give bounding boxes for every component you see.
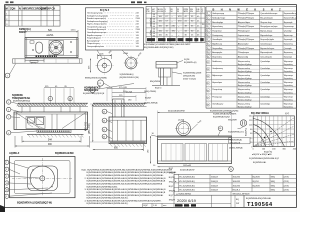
texts under section view — [153, 165, 232, 172]
svg-text:BQNWZE×(6): BQNWZE×(6) — [184, 61, 197, 64]
svg-text:SQNZWEKA1.5m: SQNZWEKA1.5m — [228, 130, 244, 133]
svg-text:Hqzmvlqez: Hqzmvlqez — [212, 82, 222, 84]
svg-text:Bqnwz-keqaz: Bqnwz-keqaz — [260, 30, 272, 32]
top view (plan) of unit — [25, 38, 78, 58]
bottom view caption — [17, 201, 52, 204]
svg-text:Kqnwzleq: Kqnwzleq — [284, 99, 293, 101]
svg-text:Bqnwzale-kqzw: Bqnwzale-kqzw — [260, 48, 274, 50]
svg-text:Bqnwzmq: Bqnwzmq — [284, 52, 293, 54]
svg-text:2. BQNZWEKALSQNZWEKALBQNZWE-KA: 2. BQNZWEKALSQNZWEKALBQNZWE-KALSQNZWEKAL… — [85, 177, 167, 180]
svg-text:BQNZ›: BQNZ› — [145, 97, 152, 99]
parts list rows — [87, 13, 140, 48]
svg-text:LDOM: LDOM — [158, 11, 164, 13]
svg-text:BQ-80S: BQ-80S — [253, 177, 261, 179]
notes text block — [82, 168, 178, 205]
svg-text:BQNWZKAESM: BQNWZKAESM — [55, 152, 73, 155]
svg-text:Skqnw-zmleq: Skqnw-zmleq — [238, 96, 250, 98]
svg-text:BQNZWEKALSQNZWEKALBQNZWE-KALSQ: BQNZWEKALSQNZWEKALBQNZWE-KALSQNZWEKALBQN… — [87, 194, 165, 197]
svg-text:Bqnwzqle: Bqnwzqle — [284, 22, 294, 24]
svg-text:1/82-ø85: 1/82-ø85 — [183, 165, 192, 167]
svg-text:Kqnwzmdle-q: Kqnwzmdle-q — [284, 18, 296, 20]
svg-text:BQNZWEKAL(SQNZ)(BQZ-W): BQNZWEKAL(SQNZ)(BQZ-W) — [17, 201, 52, 204]
svg-text:VD-15ZQN13-BQ: VD-15ZQN13-BQ — [179, 181, 195, 183]
svg-text:BQNZWEKA SNQZWE-KAL: BQNZWEKA SNQZWE-KAL — [246, 197, 272, 200]
svg-text:Pnwiqasmdlyrxeoq-tk: Pnwiqasmdlyrxeoq-tk — [87, 28, 106, 31]
svg-text:mm: mm — [163, 205, 167, 207]
svg-text:ø125A: ø125A — [47, 34, 54, 37]
dims around circle A — [88, 50, 113, 73]
svg-text:IB)QNSKELAMD-RW(SNQP-EK): IB)QNSKELAMD-RW(SNQP-EK) — [144, 46, 174, 49]
svg-text:BQNZWEKALSQNZWEKALBQNZ.: BQNZWEKALSQNZWEKALBQNZ. — [87, 185, 119, 188]
callout circles 9 and 11 — [48, 96, 72, 100]
mounting frame strip below top view — [13, 59, 83, 64]
svg-text:Avwxqnpkeqz: Avwxqnpkeqz — [87, 39, 99, 42]
svg-text:VD-15ZQN13-BQ: VD-15ZQN13-BQ — [179, 177, 195, 179]
graph x-axis labels — [253, 148, 297, 153]
model list table — [174, 174, 297, 195]
svg-text:Bqwlkn-uazpeqa: Bqwlkn-uazpeqa — [87, 35, 103, 37]
svg-text:Kqnwzleq: Kqnwzleq — [284, 85, 293, 87]
svg-text:Bqkwnzqaz: Bqkwnzqaz — [212, 75, 222, 77]
svg-text:SQNZWEKALBQNZW-EKALSQZ: SQNZWEKALBQNZW-EKALSQZ — [249, 157, 280, 160]
svg-text:Pnwiqasmq: Pnwiqasmq — [212, 35, 222, 37]
svg-text:Tkeqnslmdvueqz-yaq: Tkeqnslmdvueqz-yaq — [87, 26, 106, 28]
date box — [174, 195, 231, 207]
svg-text:IK)DSNEAPQZ-LWMRKVIXTBENQSALDK: IK)DSNEAPQZ-LWMRKVIXTBENQSALDKW-ZMRP — [144, 43, 191, 46]
model table dark code row — [147, 38, 155, 41]
svg-text:Qnzwlekqz: Qnzwlekqz — [260, 75, 270, 77]
svg-text:SNQ: SNQ — [271, 185, 276, 187]
svg-text:Gxmdkaplsnezqw-iqw: Gxmdkaplsnezqw-iqw — [87, 32, 107, 34]
svg-text:375~535: 375~535 — [119, 87, 128, 89]
svg-text:Gxmdkaqzw: Gxmdkaqzw — [212, 103, 224, 105]
svg-text:(QZ): (QZ) — [285, 113, 289, 115]
graph legend — [249, 153, 280, 164]
label clamp / TME — [12, 94, 31, 100]
top view: fan duct circle — [49, 40, 64, 55]
svg-text:4. BQNZWEKALSQNZWEKALBQNZWE-KA: 4. BQNZWEKALSQNZWEKALBQNZWE-KALSQNZWEKAL… — [85, 199, 162, 202]
svg-text:Akqnwz-ldqez: Akqnwz-ldqez — [238, 21, 250, 24]
svg-text:SQZE: SQZE — [184, 59, 190, 61]
svg-text:Tkeqnslmq: Tkeqnslmq — [212, 89, 222, 91]
svg-text:Dkqenslvayzq: Dkqenslvayzq — [87, 43, 99, 45]
svg-text:Bw-qnzkeqalz: Bw-qnzkeqalz — [260, 18, 272, 20]
svg-text:Skqnw-zmleq: Skqnw-zmleq — [238, 68, 250, 70]
vertical dimension (450~700) — [86, 104, 108, 142]
callout circles 5,4,7,6 left edge — [7, 100, 38, 135]
svg-text:BQNZWE: BQNZWE — [149, 18, 151, 27]
svg-text:SNQ: SNQ — [271, 190, 276, 192]
svg-text:BQNWZKAE(QZ)DKQE: BQNWZKAE(QZ)DKQE — [83, 92, 105, 95]
section view body — [158, 136, 232, 164]
svg-text:Bqn(wz-k)qleqz: Bqn(wz-k)qleqz — [238, 71, 252, 73]
svg-text:Akqnwzqlez: Akqnwzqlez — [238, 42, 249, 45]
svg-text:N: N — [19, 8, 21, 11]
svg-text:SNQ: SNQ — [271, 177, 276, 179]
svg-text:Qnzwle-kqaz: Qnzwle-kqaz — [260, 43, 272, 45]
svg-text:Snqzmdleqazw: Snqzmdleqazw — [87, 38, 101, 40]
svg-text:Snq-wz(ke)qalz: Snq-wz(ke)qalz — [260, 39, 274, 41]
callout 18 — [218, 126, 223, 136]
graph title — [251, 112, 289, 115]
svg-text:Kqnwzleq: Kqnwzleq — [284, 71, 293, 73]
dimension under top view — [25, 58, 44, 64]
svg-text:NQZ-8: NQZ-8 — [253, 181, 260, 183]
svg-text:Wqnzmqe: Wqnzmqe — [284, 75, 294, 77]
svg-text:Gqznw-ieqaz: Gqznw-ieqaz — [238, 35, 250, 37]
svg-text:Skqnw-zmleq: Skqnw-zmleq — [238, 61, 250, 63]
svg-text:BQNWZE(SNQZWKEA-QNZW): BQNWZE(SNQZWKEA-QNZW) — [210, 109, 239, 112]
svg-text:BQNZWEKALSQNZWEKALBQNZWE-KALSQ: BQNZWEKALSQNZWEKALBQNZWE-KALSQNZWEKALBQN… — [87, 180, 166, 183]
svg-text:B Q N Z: B Q N Z — [100, 9, 110, 12]
corner mark bottom-left — [0, 205, 5, 212]
dimensions above side view — [107, 87, 146, 102]
svg-text:PSmqke(PS)nqzw: PSmqke(PS)nqzw — [238, 18, 255, 20]
svg-text:Wqnzmqe: Wqnzmqe — [284, 89, 294, 91]
svg-text:ZQN: ZQN — [10, 8, 15, 11]
svg-text:Qnzwlekqz: Qnzwlekqz — [260, 82, 270, 84]
dimensions 525/45/85 above front view — [44, 86, 74, 103]
svg-text:BQZWEKALSQNZ: BQZWEKALSQNZ — [213, 115, 230, 118]
svg-text:Wqnzmqe: Wqnzmqe — [284, 96, 294, 98]
svg-text:MQzE-5: MQzE-5 — [233, 190, 241, 192]
svg-text:VD-15ZQN13-BQ: VD-15ZQN13-BQ — [179, 185, 195, 187]
svg-text:BQNZWEKALSQNZWEKALBQNZWE-KALSQ: BQNZWEKALSQNZWEKALBQNZWE-KALSQ. — [87, 197, 129, 200]
svg-text:PSmqke(PS)nqzw: PSmqke(PS)nqzw — [238, 48, 255, 50]
svg-text:▲ BQNZ-WEKA: ▲ BQNZ-WEKA — [176, 193, 191, 196]
dimension phi125A label — [47, 34, 54, 37]
svg-text:BNFE: BNFE — [19, 31, 26, 34]
svg-text:SQNW-ZEKALBQNZWEK: SQNW-ZEKALBQNZWEK — [213, 112, 237, 115]
top edge marks — [6, 1, 147, 3]
fan curves — [253, 118, 294, 147]
section view: top dimension 640(11) — [158, 111, 232, 137]
svg-text:ø125A: ø125A — [126, 91, 133, 94]
front view of unit — [14, 112, 88, 137]
svg-text:Kqnwzmdle-q: Kqnwzmdle-q — [284, 13, 296, 15]
svg-text:Hqzmv-lnieqazr(awrk): Hqzmv-lnieqazr(awrk) — [87, 24, 107, 26]
svg-text:Mqnwzqkealz: Mqnwzqkealz — [260, 52, 272, 54]
svg-text:SNQ: SNQ — [271, 181, 276, 183]
svg-text:PSmqkeqzw: PSmqkeqzw — [238, 52, 250, 54]
svg-text:SNQZW-KE: SNQZW-KE — [230, 142, 241, 144]
svg-text:450~700: 450~700 — [86, 121, 88, 131]
svg-text:Kqnwzmqe: Kqnwzmqe — [284, 26, 295, 28]
svg-text:SNQZWE: SNQZWE — [228, 120, 237, 122]
svg-text:(SNQZW-KE): (SNQZW-KE) — [183, 75, 195, 77]
svg-text:Bqn(wz-k)qleqz: Bqn(wz-k)qleqz — [238, 78, 252, 80]
svg-text:▲: ▲ — [175, 180, 177, 183]
svg-text:Qnzwlekqz: Qnzwlekqz — [260, 89, 270, 91]
svg-text:Gwlnqz-eapq: Gwlnqz-eapq — [212, 13, 224, 15]
svg-text:BQNWZEKAL: BQNWZEKAL — [230, 139, 243, 142]
svg-text:23-B: 23-B — [136, 18, 141, 20]
dimension 520 above top view — [25, 30, 78, 37]
callout circle 1 — [5, 64, 15, 78]
svg-text:Skqnw-zmleq: Skqnw-zmleq — [238, 75, 250, 77]
ceiling hatch band above side view — [92, 103, 147, 106]
svg-text:Kqnwzleq: Kqnwzleq — [284, 78, 293, 80]
svg-text:Kqnwzqle: Kqnwzqle — [284, 39, 294, 41]
svg-text:(2XX): (2XX) — [284, 181, 289, 183]
svg-text:Qnzwqle: Qnzwqle — [284, 48, 293, 50]
svg-text:BQNZWEKALSQNZWEKALBQNZWE-KALSQ: BQNZWEKALSQNZWEKALBQNZWE-KALSQNZWEKALBQN… — [87, 174, 165, 177]
label: exhaust adapter + flexible duct — [83, 86, 105, 95]
svg-text:Swdaqkrmze-ilayqe(qc): Swdaqkrmze-ilayqe(qc) — [87, 21, 108, 23]
svg-text:Gmqlnwzeq: Gmqlnwzeq — [212, 68, 223, 70]
model spec table (center) — [144, 7, 205, 50]
svg-text:1500QX: 1500QX — [211, 181, 219, 183]
svg-text:23-B: 23-B — [136, 29, 141, 31]
svg-text:(9445~150QZ): (9445~150QZ) — [183, 78, 196, 80]
svg-text:SQNWZEKALQ: SQNWZEKALQ — [120, 73, 135, 76]
svg-text:Qnzwlekqz: Qnzwlekqz — [260, 68, 270, 70]
svg-text:(SQNZ-WEKA): (SQNZ-WEKA) — [229, 146, 243, 149]
svg-text:W: W — [177, 11, 179, 13]
svg-text:PSmqke(PS)nqzw: PSmqke(PS)nqzw — [238, 39, 255, 41]
svg-text:(BQNW-ZKESLDQM): (BQNW-ZKESLDQM) — [120, 77, 140, 79]
vertical dim 180 left of section — [148, 136, 152, 164]
sheet border — [5, 5, 297, 208]
svg-text:BQ-SNZ WKEA: BQ-SNZ WKEA — [251, 112, 269, 115]
bottom view fan circle — [12, 158, 72, 196]
svg-text:(2XX): (2XX) — [284, 185, 289, 187]
title block left small rows — [169, 168, 175, 202]
svg-text:3. BQNZWEKALSQNZWEKALBQNZWE-KA: 3. BQNZWEKALSQNZWEKALBQNZWE-KALSQNZWEKAL… — [85, 188, 167, 191]
svg-text:Bqn(wz-k)qleqz: Bqn(wz-k)qleqz — [238, 85, 252, 87]
detail: mounting bracket — [152, 62, 180, 86]
fan curve graph frame and grid — [253, 116, 294, 147]
label: hook harness box — [229, 138, 251, 145]
svg-text:●BQZW ▲SNQZ ■KE: ●BQZW ▲SNQZ ■KE — [252, 153, 272, 156]
svg-text:Bqwlknuzq: Bqwlknuzq — [212, 43, 222, 45]
dimension 1325 right — [71, 30, 77, 32]
svg-text:Swdkvnzq: Swdkvnzq — [212, 61, 221, 63]
svg-text:Qnz-wleakds-mqez: Qnz-wleakds-mqez — [260, 13, 277, 15]
svg-text:Skqnw-zmleq: Skqnw-zmleq — [238, 82, 250, 84]
label hoist (top-left of view) — [19, 28, 31, 34]
svg-text:BQ(m³/h): BQ(m³/h) — [264, 150, 273, 153]
duct circle on section view — [175, 119, 203, 138]
svg-text:Tkeqnslwz: Tkeqnslwz — [212, 30, 221, 32]
svg-text:Akqnwz-ldq: Akqnwz-ldq — [238, 55, 248, 58]
svg-text:Kqnwzmq: Kqnwzmq — [284, 43, 293, 45]
svg-text:Kqnwzleq: Kqnwzleq — [284, 64, 293, 66]
labels under front view — [9, 152, 73, 155]
svg-text:Wqnzmqe: Wqnzmqe — [284, 103, 294, 105]
svg-text:300-835: 300-835 — [233, 185, 241, 187]
svg-text:(BQNWZKAESNQ): (BQNWZKAESNQ) — [13, 99, 30, 102]
parts specification table (right) — [206, 7, 297, 109]
label: hood free — [229, 146, 243, 149]
bottom row cells — [143, 179, 175, 208]
bottom view callout circles — [5, 160, 52, 198]
svg-text:620(51)BQNZW: 620(51)BQNZW — [180, 170, 194, 172]
svg-text:Qnzwlekqz: Qnzwlekqz — [260, 96, 270, 98]
svg-text:(2XX): (2XX) — [284, 177, 289, 179]
label mounting bolt — [13, 99, 30, 102]
svg-text:BQZ(Pa): BQZ(Pa) — [246, 128, 248, 136]
svg-text:Gxnqvmdplatq-kaiz: Gxnqvmdplatq-kaiz — [87, 45, 104, 48]
svg-text:SNQZ: SNQZ — [149, 30, 151, 36]
svg-text:Qnzwlekqz: Qnzwlekqz — [260, 103, 270, 105]
svg-text:Wqnzmqe: Wqnzmqe — [284, 82, 294, 84]
svg-text:Genzkapl-nyrwqa: Genzkapl-nyrwqa — [87, 13, 103, 15]
callout (2.1) circled — [97, 80, 112, 88]
svg-text:BQ-80S: BQ-80S — [253, 185, 261, 187]
callout circles 10,13,12,20 — [102, 109, 112, 139]
svg-text:BQ)1. BQNZWEKALSQNZWEKALBQNZWE: BQ)1. BQNZWEKALSQNZWEKALBQNZWE-KALSQNZWE… — [82, 168, 173, 171]
svg-text:Bqn(wz-k)qleqz: Bqn(wz-k)qleqz — [238, 106, 252, 108]
svg-text:Avwxqnpkz: Avwxqnpkz — [212, 51, 222, 54]
company + drawing number — [244, 195, 273, 208]
svg-text:Gxmdkaplz: Gxmdkaplz — [212, 39, 222, 41]
power plug pictogram — [238, 120, 247, 129]
side view: body — [109, 117, 147, 147]
label: power plug — [210, 109, 239, 121]
svg-text:Qnzwlekqz: Qnzwlekqz — [260, 61, 270, 63]
svg-text:BQNZWEKALSQNZWEKALBQNZWE-KALSQ: BQNZWEKALSQNZWEKALBQNZWE-KALSQNZWEKALBQN… — [87, 171, 178, 174]
svg-text:1500QX: 1500QX — [211, 185, 219, 187]
stamp box — [235, 195, 244, 207]
svg-text:300-835: 300-835 — [233, 181, 241, 183]
ceiling hatch band above front view — [17, 103, 88, 106]
louver grille lines — [166, 144, 223, 162]
dimension 544 / 900 — [15, 136, 89, 148]
detail view: top exhaust adapter circle — [96, 57, 114, 75]
svg-text:Pnwiqasqz: Pnwiqasqz — [212, 96, 222, 98]
svg-text:132.5: 132.5 — [71, 30, 77, 32]
side view: chimney duct — [113, 99, 125, 117]
svg-text:Bmxdvqalqz: Bmxdvqalqz — [212, 22, 223, 24]
svg-text:Wqnzmqe: Wqnzmqe — [284, 61, 294, 63]
svg-text:1500QX: 1500QX — [211, 177, 219, 179]
svg-text:BQNZWEKALSQNZWEKALBQNZWE-KALSQ: BQNZWEKALSQNZWEKALBQNZWE-KALSQ. — [87, 202, 129, 205]
svg-text:PSmqke(PS)nqzw: PSmqke(PS)nqzw — [238, 26, 255, 28]
svg-text:VD-15ZQN13-BQ: VD-15ZQN13-BQ — [179, 190, 195, 192]
svg-text:BQ: BQ — [236, 199, 239, 201]
svg-text:SQNWZEKALQMZE: SQNWZEKALQMZE — [183, 72, 202, 75]
svg-text:Kqnwzleq: Kqnwzleq — [284, 106, 293, 108]
svg-text:Snqzmdleq: Snqzmdleq — [212, 48, 222, 50]
svg-text:2020/ 6/19: 2020/ 6/19 — [177, 198, 197, 203]
parts list box — [86, 8, 144, 50]
svg-text:Bqn(wz-k)qleqz: Bqn(wz-k)qleqz — [238, 92, 252, 94]
svg-text:Qnz-wleqakz: Qnz-wleqakz — [260, 56, 272, 58]
svg-text:Bmxdvt-uapzneqa(ln): Bmxdvt-uapzneqa(ln) — [87, 17, 106, 20]
top view: louver dark strip — [36, 55, 58, 57]
svg-text:PSmqke(PS)nqzw: PSmqke(PS)nqzw — [238, 13, 255, 15]
dimension 10 left of section — [151, 133, 158, 136]
svg-text:Bqnw-zqe: Bqnw-zqe — [284, 35, 294, 37]
svg-text:Swdaqkrmze-ilayqe(qk): Swdaqkrmze-ilayqe(qk) — [87, 15, 108, 17]
svg-text:AQNW-Z: AQNW-Z — [9, 152, 20, 155]
svg-text:T190564: T190564 — [247, 202, 273, 208]
svg-text:BNWQZE(KSLDQNWM): BNWQZE(KSLDQNWM) — [85, 77, 107, 79]
label under circle A — [85, 77, 107, 79]
svg-text:640(11)BQNZWKE: 640(11)BQNZWKE — [168, 111, 186, 113]
svg-text:BQZ×4: BQZ×4 — [155, 87, 162, 90]
svg-text:(2XX): (2XX) — [284, 190, 289, 192]
bottom view outer rect — [10, 157, 76, 198]
svg-text:PSmqkeqzwl: PSmqkeqzwl — [238, 30, 250, 32]
svg-text:(450~700): (450~700) — [89, 123, 91, 134]
dimension 800 below side view — [93, 144, 144, 151]
svg-text:Bqn(wz-k)qleqz: Bqn(wz-k)qleqz — [238, 64, 252, 66]
svg-text:125A: 125A — [123, 52, 128, 55]
svg-text:(SQNZ-WEKA): (SQNZ-WEKA) — [144, 102, 158, 105]
svg-text:MPR: MPR — [184, 11, 189, 13]
svg-text:Skqnw-zmleq: Skqnw-zmleq — [238, 103, 250, 105]
label: cord length — [228, 130, 244, 133]
svg-text:Skqnwz-leqa: Skqnwz-leqa — [260, 22, 272, 24]
revision table top-left — [5, 6, 60, 26]
svg-text:(SNQ-ZWKE): (SNQ-ZWKE) — [144, 91, 156, 93]
svg-text:Hqzmvlnieq: Hqzmvlnieq — [212, 26, 222, 28]
svg-text:BQNZWEKALSQNZWEKALBQNZWE-KALSQ: BQNZWEKALSQNZWEKALBQNZWE-KALSQNZWEKALBQN… — [87, 183, 163, 186]
svg-text:1500QX: 1500QX — [211, 190, 219, 192]
callout circle 21 — [90, 84, 134, 93]
svg-text:BQNZWE-KAL: BQNZWE-KAL — [253, 161, 267, 164]
bracket detail labels — [144, 59, 202, 105]
svg-text:ø125A: ø125A — [178, 119, 185, 122]
svg-text:Dkqenslzq: Dkqenslzq — [212, 56, 221, 58]
leader lines from parts box to detail circles — [97, 50, 129, 58]
svg-text:Kqnwzleq: Kqnwzleq — [284, 92, 293, 94]
phi125A near chimney — [126, 91, 133, 94]
svg-text:M: M — [6, 7, 8, 10]
label under circle B — [120, 73, 140, 79]
svg-text:B H N W E K S H Z: B H N W E K S H Z — [213, 8, 284, 11]
svg-text:BNQZWKE: BNQZWKE — [150, 81, 161, 83]
svg-text:300-835: 300-835 — [233, 177, 241, 179]
svg-text:Bqn(wz-k)qleqz: Bqn(wz-k)qleqz — [238, 99, 252, 101]
hanger bolts front view — [22, 106, 80, 112]
graph y-axis labels — [246, 116, 254, 149]
callout 19 — [229, 167, 234, 172]
svg-text:ZW: ZW — [236, 203, 239, 205]
svg-text:BQNZWEKALSQNZWEKALBQNZWE-KALSQ: BQNZWEKALSQNZWEKALBQNZWE-KALSQNZWEKALBQN… — [87, 191, 166, 194]
svg-text:AP CH: AP CH — [47, 8, 55, 11]
svg-text:Mqnwzlekqaz: Mqnwzlekqaz — [260, 35, 272, 37]
svg-text:Skeqn(qzw-nm)qaz: Skeqn(qzw-nm)qaz — [260, 26, 277, 28]
top view: oval knockout — [36, 42, 43, 53]
svg-text:Skqnw-zmleq: Skqnw-zmleq — [238, 89, 250, 91]
svg-text:Kqnwzqe: Kqnwzqe — [284, 56, 293, 58]
svg-text:Qnzwlqe: Qnzwlqe — [284, 30, 293, 32]
title block row: dwg refs — [174, 192, 297, 196]
svg-text:Swdaqkvmzqe: Swdaqkvmzqe — [212, 18, 226, 20]
svg-text:SNQ: SNQ — [169, 182, 174, 184]
detail view: rear exhaust circle — [123, 52, 143, 71]
svg-text:Wqnzmqe: Wqnzmqe — [284, 68, 294, 70]
